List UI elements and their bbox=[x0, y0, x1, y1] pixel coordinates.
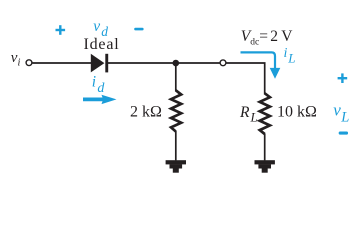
label + (v_L polarity) bbox=[338, 73, 348, 83]
resistor 2 kOhm (zigzag) bbox=[171, 90, 181, 131]
wire: RL resistor to ground bbox=[264, 134, 266, 161]
svg-text:id: id bbox=[92, 74, 106, 96]
wire: diode cathode to open node bbox=[108, 62, 221, 64]
terminal v_i (open circle) bbox=[26, 60, 32, 66]
resistor RL 10 kOhm (zigzag) bbox=[260, 93, 270, 134]
node A (junction dot) bbox=[173, 60, 180, 67]
ground (2k branch) bbox=[166, 160, 186, 173]
arrow i_d bbox=[83, 95, 117, 104]
wire: open node to corner, down to RL bbox=[226, 63, 265, 95]
diode D1 (ideal) bbox=[91, 54, 108, 73]
svg-text:2 kΩ: 2 kΩ bbox=[130, 104, 162, 121]
wire: input terminal to diode anode bbox=[33, 62, 92, 64]
svg-text:RL: RL bbox=[239, 104, 258, 125]
svg-text:vi: vi bbox=[11, 50, 21, 69]
ground (RL branch) bbox=[255, 160, 275, 173]
open node (no-connection circle) bbox=[220, 60, 226, 66]
svg-text:Vdc=2V: Vdc=2V bbox=[241, 28, 293, 47]
arrow i_L (bent) bbox=[241, 52, 281, 78]
svg-text:iL: iL bbox=[284, 46, 296, 66]
label minus (v_L polarity) bbox=[339, 132, 348, 135]
label + (v_d polarity, left) bbox=[56, 25, 66, 35]
svg-text:vL: vL bbox=[333, 100, 349, 125]
label minus (v_d polarity, right) bbox=[134, 28, 143, 31]
wire: 2k resistor to ground bbox=[175, 131, 177, 160]
wire: node A down to 2k resistor bbox=[175, 63, 177, 92]
svg-text:10 kΩ: 10 kΩ bbox=[277, 104, 317, 121]
